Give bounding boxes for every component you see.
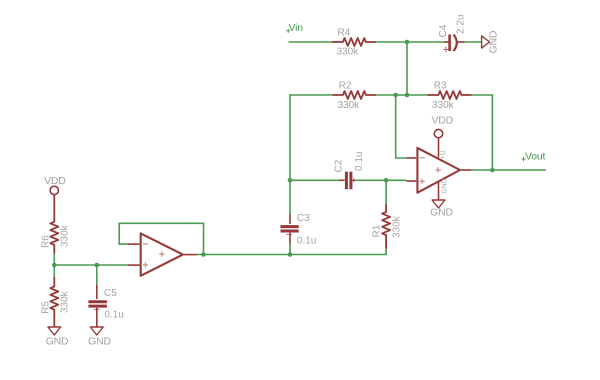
wire bottom row op1 output to R1 corner	[197, 249, 387, 255]
wire C4 to GND	[464, 41, 482, 43]
wire R2R3 row middle segment	[376, 94, 427, 96]
resistor R4	[331, 38, 376, 46]
label C4 name	[438, 24, 449, 37]
svg-text:GND: GND	[46, 336, 69, 348]
svg-text:330k: 330k	[432, 100, 455, 111]
power VDD symbol for U2	[434, 129, 442, 137]
junction op1 output feedback	[201, 252, 206, 257]
label C5 value 0.1u	[104, 310, 123, 321]
capacitor C4 polarized	[443, 35, 465, 53]
svg-text:Vout: Vout	[525, 151, 546, 163]
junction bottom row C3	[288, 252, 293, 257]
wire R6 bottom to junction	[53, 253, 55, 265]
ground GND below R5	[48, 327, 61, 335]
svg-text:VDD: VDD	[432, 115, 454, 127]
label R1 value 330k	[392, 215, 403, 238]
resistor R3	[427, 91, 471, 99]
svg-text:R4: R4	[338, 27, 351, 38]
svg-text:R5: R5	[40, 301, 51, 314]
resistor R6	[50, 195, 58, 254]
svg-text:R6: R6	[40, 235, 51, 248]
wire from R2R3 junction down to op2 minus input	[396, 95, 407, 158]
wire C2 row left segment	[290, 179, 339, 181]
label R5 name	[40, 301, 51, 314]
label R3 value 330k	[432, 100, 455, 111]
wire op1 feedback loop	[119, 223, 203, 254]
label R6 value 330k	[59, 224, 70, 247]
svg-text:Vin: Vin	[289, 22, 304, 34]
label C2 name	[334, 159, 345, 172]
ground GND right of C4	[482, 36, 490, 48]
label R3 name	[434, 81, 447, 92]
svg-text:C3: C3	[297, 213, 310, 224]
label GND pin text	[441, 179, 448, 194]
junction C5 top	[95, 263, 100, 268]
svg-text:R2: R2	[339, 81, 352, 92]
pin +U power lead of U2	[438, 138, 440, 158]
label C3 name	[297, 213, 310, 224]
node Vin label	[286, 22, 303, 34]
svg-text:C5: C5	[104, 288, 117, 299]
wire op1 plus input row	[54, 264, 127, 266]
wire R2 row left segment with corner down left column	[290, 95, 333, 180]
svg-text:330k: 330k	[338, 100, 361, 111]
wire R3 right corner down to output node	[472, 95, 493, 170]
ground GND below U2	[432, 200, 445, 208]
ground GND below C5	[90, 327, 103, 335]
svg-text:330k: 330k	[59, 224, 70, 247]
svg-text:0.1u: 0.1u	[104, 310, 123, 321]
wire Vin row right segment to C4	[376, 41, 444, 43]
svg-text:R3: R3	[434, 81, 447, 92]
op-amp U2	[406, 148, 471, 193]
label VDD text above U2	[432, 115, 454, 127]
svg-text:R1: R1	[372, 224, 383, 237]
resistor R2	[333, 91, 377, 99]
junction C2 row R1 top	[384, 178, 389, 183]
label R4 name	[338, 27, 351, 38]
wire op2 output to Vout	[471, 169, 546, 171]
label GND text below U2	[430, 207, 453, 219]
label +U pin text	[440, 150, 447, 159]
svg-text:GND: GND	[430, 207, 453, 219]
junction R6 bottom	[52, 263, 57, 268]
label R6 name	[40, 235, 51, 248]
svg-text:330k: 330k	[59, 290, 70, 313]
svg-text:GND: GND	[88, 336, 111, 348]
label GND text below C5	[88, 336, 111, 348]
wire left column C3 bottom lead green	[289, 245, 291, 255]
svg-text:C2: C2	[334, 159, 345, 172]
resistor R1	[382, 204, 390, 249]
wire C5 top lead green	[96, 265, 98, 285]
svg-text:0.1u: 0.1u	[297, 236, 316, 247]
wire C2 to R1 junction and op2 plus input	[355, 179, 406, 181]
wire Vin row left segment	[289, 41, 332, 43]
wire vertical from Vin row to R2R3 row	[406, 42, 408, 95]
capacitor C5 polarized	[88, 285, 107, 327]
label R4 value 330k	[337, 47, 360, 58]
label R2 name	[339, 81, 352, 92]
power VDD symbol for R6	[50, 186, 58, 194]
svg-text:GND: GND	[441, 179, 448, 194]
label C2 value 0.1u	[354, 152, 365, 171]
label C3 value 0.1u	[297, 236, 316, 247]
label R1 name	[372, 224, 383, 237]
svg-text:VDD: VDD	[44, 175, 66, 187]
junction at Vin row x407	[405, 40, 410, 45]
svg-text:330k: 330k	[337, 47, 360, 58]
label R2 value 330k	[338, 100, 361, 111]
capacitor C2	[339, 172, 355, 190]
op-amp U1 buffer	[128, 233, 197, 275]
svg-text:0.1u: 0.1u	[354, 152, 365, 171]
node Vout label	[521, 151, 545, 163]
wire junction to R5 top	[53, 265, 55, 277]
svg-text:C4: C4	[438, 24, 449, 37]
label C5 name	[104, 288, 117, 299]
junction op2 output node	[490, 168, 495, 173]
resistor R5	[50, 277, 58, 327]
svg-text:GND: GND	[488, 30, 500, 53]
svg-text:2.2u: 2.2u	[456, 15, 467, 34]
wire R1 top green from C2 row junction	[385, 180, 387, 205]
label C4 value 2.2u	[456, 15, 467, 34]
capacitor C3 polarized	[281, 214, 299, 245]
junction C2 row left column	[288, 178, 293, 183]
wire left column C3 top lead green	[289, 180, 291, 214]
label GND text below R5	[46, 336, 69, 348]
svg-text:+U: +U	[440, 150, 447, 159]
label VDD text left column	[44, 175, 66, 187]
label R5 value 330k	[59, 290, 70, 313]
svg-text:330k: 330k	[392, 215, 403, 238]
junction at R2R3 row x395.7	[393, 93, 398, 98]
label GND text right of C4	[488, 30, 500, 53]
junction at R2R3 row x407	[405, 93, 410, 98]
pin GND lead of U2	[438, 182, 440, 200]
